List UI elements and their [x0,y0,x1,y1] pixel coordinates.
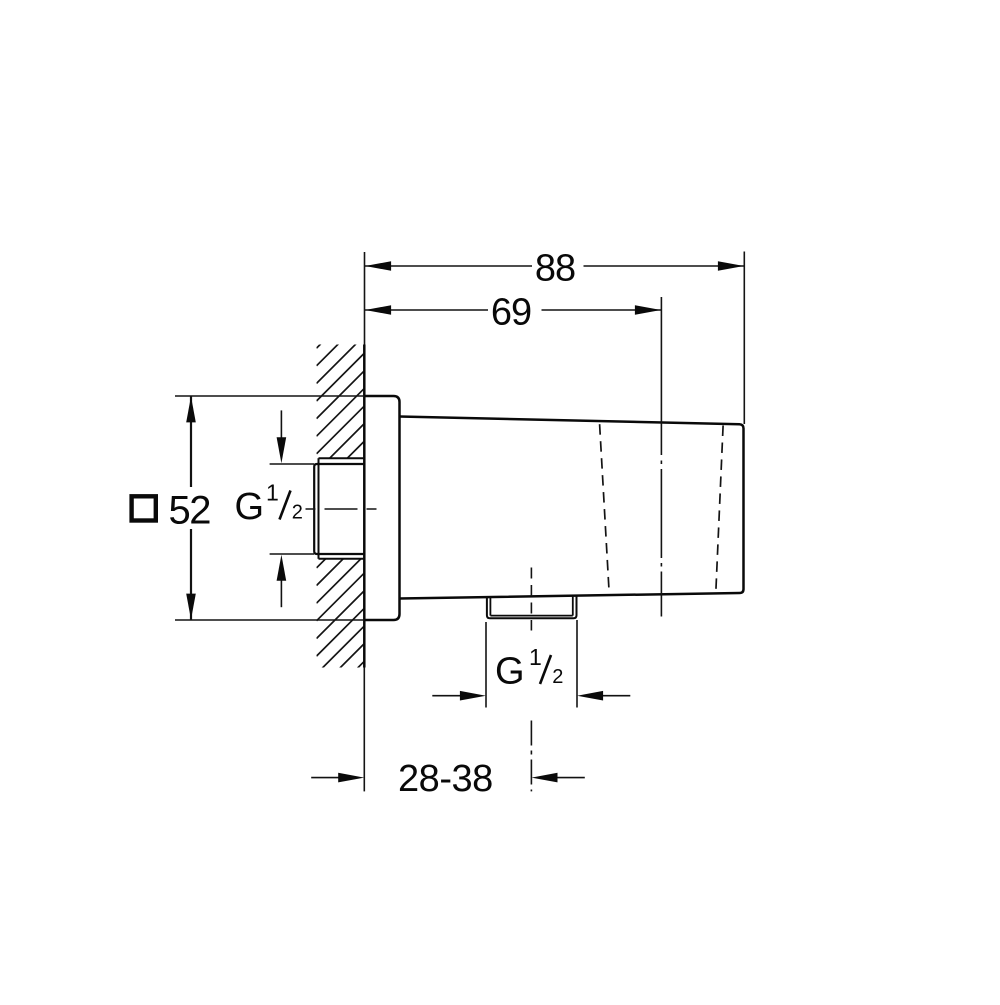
outlet G1/2 extension line right [576,620,578,708]
inner G1/2 arrow top [280,410,282,440]
svg-text:1: 1 [529,644,542,670]
svg-text:69: 69 [491,291,531,333]
escutcheon flange [364,396,399,620]
outlet nipple G1/2 inner thread lines [490,596,572,616]
cone hidden contour dashed left [600,424,610,593]
svg-text:88: 88 [535,247,575,289]
label G 1/2 inlet [235,480,303,529]
dimension 28-38 arrows [311,777,340,779]
svg-text:G: G [495,651,525,693]
outlet axis center line lower [530,721,532,792]
svg-text:28-38: 28-38 [398,758,493,800]
wall surface line [363,345,366,668]
extension line right for 88 [743,252,745,425]
inlet axis center line [306,508,382,510]
dimension 69 [365,309,661,311]
svg-text:52: 52 [169,488,211,532]
svg-text:1: 1 [266,480,279,506]
cone hidden contour dashed right [716,426,723,591]
inlet thread G1/2 root lines [319,458,365,559]
square symbol [132,496,156,520]
dimension 52 extension line top [175,395,364,397]
inlet thread G1/2 crest outline [314,464,364,554]
dimension 88 [365,265,744,267]
label G 1/2 outlet [495,644,563,693]
dimension 52 extension line bottom [175,619,364,621]
outlet axis center line upper [530,568,532,631]
extension line below wall for 28-38 [363,668,365,792]
inner G1/2 arrow bottom [280,578,282,607]
outlet nipple G1/2 outer lines [487,596,577,618]
body cone outline [400,417,744,599]
wall hatching [317,300,366,709]
svg-text:2: 2 [552,666,563,688]
inner G1/2 extension line top [270,463,315,465]
dimension 52 vertical line and arrows [190,397,192,620]
svg-text:G: G [235,486,265,528]
outlet G1/2 extension line left [485,622,487,708]
body axis center line [660,297,662,455]
inner G1/2 extension line bottom [270,553,315,555]
extension line left for 88 and 69 [364,252,366,345]
svg-text:2: 2 [292,502,303,524]
outlet G1/2 dimension arrows [432,695,462,697]
